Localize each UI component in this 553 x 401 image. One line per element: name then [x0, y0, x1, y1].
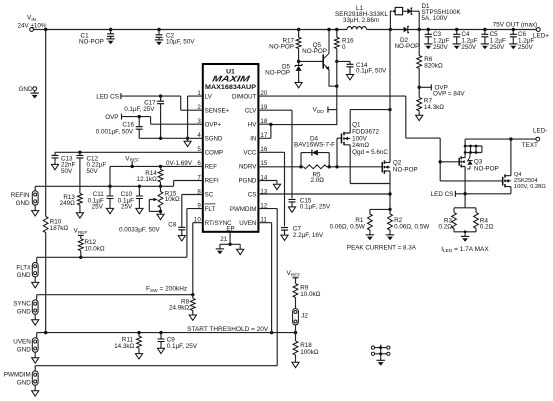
- svg-text:PWMDIM: PWMDIM: [4, 372, 31, 379]
- svg-text:0: 0: [342, 44, 346, 51]
- svg-text:BAV16WS-7-F: BAV16WS-7-F: [294, 141, 335, 148]
- svg-text:COMP: COMP: [205, 150, 224, 157]
- svg-text:10kΩ: 10kΩ: [165, 196, 180, 203]
- svg-text:LV: LV: [205, 93, 213, 100]
- svg-text:UVEN: UVEN: [13, 339, 31, 346]
- svg-text:0V-1.69V: 0V-1.69V: [166, 160, 193, 167]
- wire FLT row: [37, 256, 187, 258]
- svg-text:0.1µF, 25V: 0.1µF, 25V: [124, 106, 155, 113]
- capacitor C13: [51, 152, 75, 175]
- svg-text:PWMDIM: PWMDIM: [230, 206, 256, 213]
- wire L1 to switch node: [367, 28, 392, 31]
- wire LED CS row: [455, 192, 511, 195]
- svg-text:250V: 250V: [490, 44, 506, 51]
- svg-text:249Ω: 249Ω: [60, 200, 76, 207]
- wire VDD column: [271, 61, 339, 124]
- svg-text:MAXIM: MAXIM: [211, 74, 251, 84]
- wire COMP row: [55, 151, 203, 153]
- resistor R11: [114, 333, 143, 359]
- capacitor C11: [88, 186, 114, 214]
- svg-text:50V: 50V: [87, 168, 99, 175]
- wire 75V output rail: [418, 22, 538, 32]
- svg-text:0.001µF, 50V: 0.001µF, 50V: [96, 129, 134, 136]
- U1 pin labels: [194, 90, 268, 233]
- svg-text:0.06Ω, 0.5W: 0.06Ω, 0.5W: [394, 223, 429, 230]
- svg-text:SC: SC: [205, 192, 214, 199]
- svg-text:DIMOUT: DIMOUT: [232, 93, 257, 100]
- connector REFIN: [11, 186, 39, 216]
- resistor R7: [417, 87, 445, 112]
- resistor R4: [474, 208, 494, 232]
- wire FLT pin route: [187, 209, 203, 258]
- svg-text:LED CS: LED CS: [431, 191, 454, 198]
- wire VIN top rail: [44, 28, 347, 31]
- svg-text:LED-: LED-: [533, 128, 547, 135]
- text PEAK CURRENT: [347, 244, 417, 251]
- node test point cluster: [371, 345, 390, 366]
- wire NDRV route: [258, 166, 301, 168]
- resistor R2: [386, 209, 430, 240]
- svg-text:10.0kΩ: 10.0kΩ: [85, 245, 105, 252]
- svg-text:PGND: PGND: [239, 178, 257, 185]
- capacitor C12: [76, 151, 106, 194]
- capacitor C3: [424, 28, 449, 51]
- wire LED CS to SENSE+: [121, 96, 203, 110]
- svg-text:REF: REF: [205, 164, 218, 171]
- svg-text:VCC: VCC: [243, 150, 257, 157]
- ground EP right: [230, 244, 244, 254]
- op-amp U1 MAX16834AUP body: [203, 64, 259, 232]
- svg-text:NO-POP: NO-POP: [265, 70, 290, 77]
- diode D2 NO-POP: [390, 26, 419, 50]
- transistor Q2: [382, 159, 417, 174]
- svg-text:Qgd = 5.6nC: Qgd = 5.6nC: [352, 149, 388, 156]
- svg-text:HV: HV: [248, 121, 257, 128]
- resistor R14: [137, 165, 163, 187]
- svg-text:OVP = 84V: OVP = 84V: [433, 90, 465, 97]
- svg-text:EP: EP: [226, 226, 234, 233]
- resistor R10: [43, 30, 68, 333]
- connector UVEN: [13, 333, 39, 364]
- svg-text:0.06Ω, 0.5W: 0.06Ω, 0.5W: [330, 223, 365, 230]
- svg-text:2.0Ω: 2.0Ω: [311, 177, 325, 184]
- node VIN input terminal: [18, 15, 47, 32]
- resistor R9: [293, 284, 321, 309]
- svg-text:NO-POP: NO-POP: [395, 43, 420, 50]
- svg-text:MAX16834AUP: MAX16834AUP: [205, 84, 257, 91]
- svg-text:SYNC: SYNC: [13, 301, 31, 308]
- svg-text:CLV: CLV: [245, 107, 257, 114]
- ground below R3 R4: [454, 230, 476, 241]
- svg-text:24V ±10%: 24V ±10%: [18, 22, 47, 29]
- node EP pin 21: [220, 232, 232, 246]
- ground below R7: [416, 112, 423, 120]
- ground GND input terminal: [19, 86, 39, 99]
- node LED+ terminal: [533, 28, 549, 40]
- svg-text:C8: C8: [168, 222, 177, 229]
- svg-text:0.1µF, 50V: 0.1µF, 50V: [356, 68, 387, 75]
- capacitor C7: [281, 226, 324, 241]
- wire LED- row: [465, 137, 536, 140]
- svg-text:50V: 50V: [61, 168, 73, 175]
- svg-text:FLT: FLT: [205, 206, 216, 213]
- node LED CS label left: [96, 93, 121, 101]
- svg-text:SENSE+: SENSE+: [205, 107, 230, 114]
- resistor R17: [269, 28, 301, 62]
- transistor Q3: [459, 153, 499, 194]
- ground below R18: [292, 359, 299, 367]
- capacitor C16: [96, 115, 143, 138]
- transistor Q3 ladder: [464, 139, 482, 154]
- potentiometer R15: [149, 186, 180, 219]
- capacitor C1: [79, 28, 115, 46]
- text START THRESHOLD: [187, 326, 269, 333]
- capacitor C6: [509, 28, 534, 51]
- wire RT-SYNC pin route: [193, 223, 203, 295]
- svg-text:NDRV: NDRV: [239, 164, 257, 171]
- resistor R18: [293, 333, 319, 360]
- svg-text:0.1µF, 25V: 0.1µF, 25V: [167, 343, 198, 350]
- svg-text:LED+: LED+: [533, 33, 549, 40]
- svg-text:12.1kΩ: 12.1kΩ: [137, 176, 157, 183]
- wire REFI row: [35, 181, 203, 189]
- svg-text:2.2µF, 16V: 2.2µF, 16V: [293, 232, 324, 239]
- svg-text:LED CS: LED CS: [96, 94, 119, 101]
- wire D1 branch riser: [390, 11, 392, 29]
- capacitor C9: [157, 333, 197, 354]
- svg-text:250V: 250V: [518, 44, 534, 51]
- svg-text:START THRESHOLD = 20V: START THRESHOLD = 20V: [187, 326, 269, 333]
- transistor Q1: [337, 110, 388, 184]
- ground EP left: [216, 244, 230, 254]
- ground below D5: [295, 80, 302, 88]
- ground PGND pin: [258, 181, 280, 190]
- wire Q1 drain bus: [350, 108, 391, 111]
- wire DIMOUT route: [258, 96, 442, 181]
- wire Q4 gate row: [440, 180, 503, 182]
- svg-text:75V OUT (max): 75V OUT (max): [493, 22, 538, 29]
- wire Q1 source bus: [350, 183, 390, 185]
- svg-text:NO-POP: NO-POP: [302, 48, 327, 55]
- connector FLT#: [16, 257, 38, 288]
- svg-text:0.2Ω: 0.2Ω: [480, 224, 494, 231]
- svg-text:GND: GND: [17, 272, 31, 279]
- svg-text:OVP+: OVP+: [205, 121, 222, 128]
- svg-text:GND: GND: [19, 86, 33, 93]
- svg-text:CS: CS: [248, 192, 257, 199]
- diode D1: [407, 3, 461, 30]
- wire CLV route: [258, 110, 292, 198]
- inductor L1: [335, 5, 389, 29]
- svg-text:100kΩ: 100kΩ: [300, 349, 319, 356]
- svg-text:REFIN: REFIN: [11, 192, 30, 199]
- svg-text:250V: 250V: [461, 44, 477, 51]
- svg-text:NO-POP: NO-POP: [474, 165, 499, 172]
- svg-text:REFI: REFI: [205, 178, 219, 185]
- svg-text:NO-POP: NO-POP: [79, 39, 104, 46]
- resistor R5: [299, 165, 331, 184]
- resistor R13: [60, 194, 84, 219]
- svg-text:0.2Ω: 0.2Ω: [439, 224, 453, 231]
- connector SYNC: [13, 295, 39, 326]
- svg-text:GND: GND: [17, 346, 31, 353]
- wire SYNC row: [37, 293, 195, 296]
- svg-text:Q2: Q2: [393, 159, 402, 166]
- svg-text:187kΩ: 187kΩ: [50, 225, 69, 232]
- ground SGND: [184, 138, 191, 146]
- node CS junction: [388, 192, 391, 195]
- svg-text:10µF, 50V: 10µF, 50V: [166, 39, 195, 46]
- wire Q3 gate: [440, 161, 459, 163]
- jumper J2: [293, 309, 309, 333]
- wire CS route: [258, 193, 390, 195]
- svg-text:C16: C16: [122, 121, 134, 128]
- svg-text:SGND: SGND: [205, 136, 223, 143]
- svg-text:14.3kΩ: 14.3kΩ: [114, 343, 134, 350]
- wire REF row: [110, 166, 203, 186]
- transistor Q5: [299, 28, 337, 86]
- node OVP label tick: [418, 84, 466, 97]
- diode D5 zener: [265, 60, 302, 83]
- capacitor C14: [335, 60, 387, 80]
- capacitor C5: [481, 28, 506, 51]
- svg-text:J2: J2: [301, 312, 308, 319]
- wire UVEN pin route: [258, 223, 271, 333]
- text REFI range: [166, 160, 193, 167]
- svg-text:0.0033µF, 50V: 0.0033µF, 50V: [119, 227, 161, 234]
- svg-text:33µH, 2.86m: 33µH, 2.86m: [343, 17, 379, 24]
- wire UVEN row: [37, 331, 297, 334]
- svg-text:820kΩ: 820kΩ: [424, 63, 443, 70]
- svg-text:NO-POP: NO-POP: [393, 166, 418, 173]
- node LED CS label right: [431, 191, 456, 198]
- node OVP label left: [105, 114, 121, 122]
- svg-text:NO-POP: NO-POP: [269, 44, 294, 51]
- svg-text:PEAK CURRENT = 8.3A: PEAK CURRENT = 8.3A: [347, 244, 417, 251]
- resistor R1: [330, 209, 374, 240]
- svg-text:25V: 25V: [121, 203, 133, 210]
- svg-text:250V: 250V: [433, 44, 449, 51]
- wire switch rail: [389, 30, 391, 210]
- wire OVP to OVP+ pin: [122, 117, 203, 125]
- svg-text:FLT#: FLT#: [16, 264, 31, 271]
- wire LV to SGND: [186, 96, 203, 140]
- text FSW: [146, 286, 187, 294]
- wire HV IN jumper: [258, 123, 272, 139]
- svg-text:10.0kΩ: 10.0kΩ: [300, 291, 320, 298]
- svg-text:25V: 25V: [92, 203, 104, 210]
- svg-text:100V, 0.28Ω: 100V, 0.28Ω: [514, 184, 547, 190]
- transistor Q4: [503, 139, 547, 194]
- jumper current-sense box at D1: [392, 7, 407, 14]
- svg-text:15: 15: [260, 160, 267, 167]
- capacitor C4: [453, 28, 478, 51]
- svg-text:14.3kΩ: 14.3kΩ: [424, 104, 444, 111]
- node LED- terminal: [522, 128, 548, 149]
- capacitor C15: [288, 197, 330, 212]
- resistor R3: [439, 208, 457, 232]
- diode D4: [294, 135, 335, 167]
- svg-text:24.9kΩ: 24.9kΩ: [169, 304, 189, 311]
- capacitor C8: [119, 195, 203, 242]
- svg-text:GND: GND: [16, 200, 30, 207]
- node VREF label at REF: [125, 155, 139, 168]
- resistor R16: [334, 28, 354, 62]
- node VREF label at R12: [74, 228, 88, 239]
- resistor R12: [78, 239, 105, 259]
- wire PWMDIM pin route: [35, 209, 277, 366]
- capacitor C17: [124, 94, 164, 138]
- wire SGND row: [139, 137, 203, 140]
- connector PWMDIM: [4, 366, 39, 397]
- node VREF label at R9: [287, 270, 301, 283]
- capacitor C10: [118, 186, 143, 214]
- svg-text:UVEN: UVEN: [239, 220, 256, 227]
- wire source to R1 R2: [370, 208, 392, 211]
- svg-text:IN: IN: [250, 136, 256, 143]
- svg-text:0.1µF, 25V: 0.1µF, 25V: [300, 204, 331, 211]
- node VDD label: [313, 107, 337, 115]
- text ILED: [441, 246, 489, 254]
- svg-text:5A, 100V: 5A, 100V: [422, 15, 449, 22]
- capacitor C2: [155, 28, 195, 46]
- svg-text:21: 21: [220, 236, 228, 243]
- wire NDRV to gates: [329, 165, 382, 168]
- wire to R3 R4: [454, 194, 476, 208]
- svg-text:GND: GND: [17, 379, 31, 386]
- svg-text:GND: GND: [17, 308, 31, 315]
- wire VCC route: [258, 152, 284, 226]
- svg-text:TEXT: TEXT: [522, 142, 538, 149]
- resistor R6: [417, 30, 443, 88]
- svg-text:OVP: OVP: [105, 114, 118, 121]
- resistor R8: [169, 295, 196, 321]
